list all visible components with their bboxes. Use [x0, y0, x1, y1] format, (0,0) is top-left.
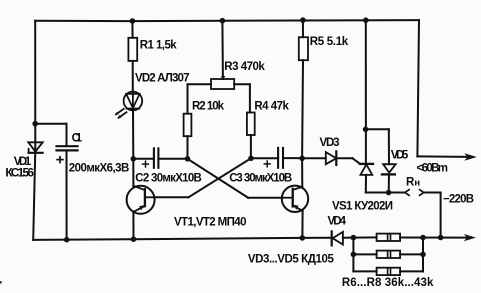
- svg-text:VD3...VD5 КД105: VD3...VD5 КД105: [248, 253, 335, 265]
- wire left ladder of R6-R8: [352, 238, 354, 272]
- polarity plus of C2: [143, 161, 149, 167]
- node top rail to VS1 branch: [363, 17, 369, 23]
- svg-text:КС156: КС156: [5, 166, 34, 180]
- node R5 / C3 / VD3 / VT2 collector: [299, 156, 305, 162]
- wire R1 to LED VD2: [132, 61, 134, 92]
- resistor R2: [184, 84, 211, 159]
- svg-text:R1 1,5k: R1 1,5k: [140, 40, 178, 52]
- resistor R8: [353, 268, 423, 275]
- node C2 tap / VT1 collector chain: [131, 156, 137, 162]
- svg-text:R5 5.1k: R5 5.1k: [310, 36, 349, 48]
- thyristor VS1: [360, 164, 373, 193]
- wire VT1 emitter to bottom rail: [132, 212, 134, 240]
- resistor R4: [247, 113, 255, 159]
- wire output to lamps with arrow: [417, 153, 476, 160]
- wire right ladder of R6-R8: [422, 238, 424, 272]
- svg-text:<60Вm: <60Вm: [417, 162, 449, 174]
- svg-text:C3 30мкХ10В: C3 30мкХ10В: [229, 173, 292, 185]
- diode VD4: [332, 231, 343, 245]
- polarity plus of C1: [57, 157, 63, 163]
- svg-text:R2 10k: R2 10k: [192, 101, 225, 113]
- wire node down to VT2 collector: [301, 158, 303, 187]
- node C2 / R2 / VT2 base coupling: [185, 156, 191, 162]
- node top rail to R5: [300, 17, 306, 23]
- transistor VT1 (PNP): [127, 186, 155, 214]
- svg-text:R4 47k: R4 47k: [254, 101, 289, 113]
- capacitor C3: [251, 148, 302, 168]
- resistor R3 horizontal: [211, 21, 250, 113]
- wire bottom rail VD4 to R6 box: [343, 236, 377, 238]
- svg-text:R6...R8 36k...43k: R6...R8 36k...43k: [342, 277, 434, 289]
- node mains return on bottom rail: [438, 235, 444, 241]
- LED VD2 light emission arrows: [115, 109, 127, 119]
- node right ladder middle: [420, 252, 426, 258]
- svg-text:VD5: VD5: [391, 150, 409, 162]
- wire VT2 emitter to bottom rail: [301, 211, 303, 238]
- node top rail to R3: [220, 18, 226, 24]
- wire load node to connector Rn: [389, 192, 405, 194]
- wire coupling C3 node to VT1 base (cross wire): [154, 158, 251, 197]
- wire top rail: [35, 20, 419, 21]
- svg-text:VT1,VT2 МП40: VT1,VT2 МП40: [174, 217, 247, 229]
- node VT1 emitter on bottom rail: [131, 236, 137, 242]
- svg-text:200мкХ6,3В: 200мкХ6,3В: [69, 162, 130, 174]
- zener diode VD1: [28, 142, 42, 153]
- wire VD3 to VS1 gate: [353, 158, 360, 163]
- connector Rn left contact: [405, 190, 409, 196]
- svg-text:VD3: VD3: [320, 137, 340, 149]
- capacitor C1: [57, 124, 78, 240]
- transistor VT2 (PNP): [282, 186, 308, 212]
- diode VD5: [382, 129, 396, 192]
- wire VS1 anode to VD5 anode node: [366, 192, 389, 194]
- resistor R5: [299, 20, 308, 158]
- svg-text:VD4: VD4: [328, 215, 347, 227]
- resistor R1: [128, 38, 137, 61]
- wire left rail: [33, 21, 35, 240]
- node left ladder middle: [351, 252, 357, 258]
- resistor R6: [377, 234, 401, 241]
- svg-text:R3 470k: R3 470k: [224, 61, 265, 73]
- diode VD3: [302, 151, 352, 165]
- capacitor C2: [133, 148, 187, 167]
- resistor R7: [353, 251, 423, 258]
- svg-text:Rн: Rн: [406, 177, 420, 189]
- node VD1/C1 tap on left rail: [32, 121, 66, 127]
- wire coupling C2 node to VT2 base (cross wire): [188, 159, 283, 198]
- connector Rn right contact: [420, 190, 424, 196]
- node right ladder top: [420, 235, 426, 241]
- node VD5 / VS1 / load: [386, 190, 392, 196]
- wire right drop from top rail: [417, 20, 419, 156]
- LED VD2: [124, 92, 143, 111]
- node top rail to R1: [130, 18, 136, 24]
- node C1 to bottom rail: [64, 237, 70, 243]
- svg-text:−220В: −220В: [443, 194, 474, 206]
- polarity plus of C3: [264, 161, 270, 167]
- wire C2 node down to VT1 collector: [132, 159, 134, 188]
- node C3 / R4 / VT1 base coupling: [248, 156, 254, 162]
- wire Rn to mains drop: [424, 193, 441, 238]
- node R6-R8 left on bottom rail: [351, 235, 357, 241]
- svg-text:C2 30мкХ10В: C2 30мкХ10В: [135, 173, 202, 185]
- svg-text:C1: C1: [72, 133, 83, 145]
- node VS1 cathode branch to VD5: [363, 127, 389, 133]
- wire bottom rail right section with output arrow: [400, 234, 476, 241]
- wire LED VD2 down to C2 node: [132, 110, 134, 159]
- wire top rail down to VS1: [365, 20, 367, 164]
- svg-text:VD2 АЛ307: VD2 АЛ307: [135, 73, 190, 85]
- wire top rail to R1: [131, 21, 133, 38]
- node VT2 emitter on bottom rail: [300, 235, 306, 241]
- wire bottom rail left section: [33, 238, 332, 240]
- svg-text:VS1 КУ202И: VS1 КУ202И: [332, 201, 393, 213]
- scan speck bottom left edge: [0, 281, 2, 284]
